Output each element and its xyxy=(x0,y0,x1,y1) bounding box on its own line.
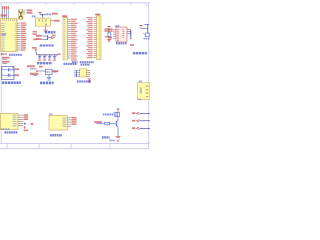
section title mcu minimal system xyxy=(2,81,21,84)
J2 net labels xyxy=(86,17,92,58)
bluetooth module U3 xyxy=(80,69,87,77)
U1 designator text xyxy=(1,33,6,35)
title block dividers xyxy=(7,144,110,149)
buzzer label xyxy=(103,114,114,116)
stray net labels right of U1 pins xyxy=(33,31,37,33)
J4 internal text xyxy=(140,88,142,94)
USB1 right pins xyxy=(127,29,131,34)
shield strip xyxy=(130,30,132,37)
net label above J1 xyxy=(62,15,67,17)
net labels under U1 xyxy=(1,53,4,55)
ground bluetooth xyxy=(88,78,91,82)
J1 pin numbers xyxy=(64,19,65,59)
net label C1 xyxy=(15,68,19,70)
title block top line xyxy=(0,143,150,145)
J2 pins xyxy=(94,18,97,58)
section title swd xyxy=(4,131,17,133)
J4 pin numbers xyxy=(146,86,149,98)
U2 right pin xyxy=(50,20,53,22)
wire net port 2 xyxy=(139,120,150,122)
resistor R base xyxy=(105,122,110,124)
section title filter caps xyxy=(37,62,52,64)
net label row above U1 edge xyxy=(1,15,7,17)
blue text under USB1 xyxy=(116,42,127,44)
net label SWD xyxy=(30,73,39,75)
ref text J4 xyxy=(139,81,142,83)
usb ref text xyxy=(115,25,119,27)
wire emitter xyxy=(117,127,119,136)
USB1 left pin numbers xyxy=(117,29,119,41)
wire join xyxy=(47,36,49,39)
P1 pin names xyxy=(13,115,17,127)
transistor Q1 xyxy=(115,121,117,126)
U2 bottom pin xyxy=(45,26,47,30)
resistor R row 1 xyxy=(2,57,10,59)
capacitor C6 xyxy=(54,55,56,57)
header J2 xyxy=(97,16,102,60)
J2 pin numbers xyxy=(99,17,100,58)
net label 3V3 xyxy=(54,20,60,22)
resistor R cc xyxy=(108,33,111,37)
fuse F1 xyxy=(46,69,53,74)
regulator ref text xyxy=(47,13,51,15)
wire RXD xyxy=(42,35,48,37)
sheet border bottom xyxy=(0,148,150,150)
title block text xyxy=(109,140,115,142)
power flag top right xyxy=(140,25,143,26)
sheet border right xyxy=(148,3,150,149)
net label 5V xyxy=(52,13,58,15)
sheet corner mark top-right xyxy=(146,3,149,6)
ground buzzer xyxy=(116,135,121,137)
net label rail end xyxy=(58,54,61,56)
net label under flag xyxy=(24,130,29,132)
P1 pins xyxy=(18,115,23,126)
U1 right pins xyxy=(17,23,20,50)
section title one-key download xyxy=(40,44,54,46)
net label RXD xyxy=(36,35,42,37)
power flag typec xyxy=(108,26,111,27)
section title buzzer xyxy=(102,136,110,138)
crystal Y1 xyxy=(19,10,23,20)
section title serial download xyxy=(40,82,54,85)
net label C2 xyxy=(15,74,19,76)
sheet border top ticks xyxy=(18,3,131,5)
blue text under bluetooth xyxy=(77,80,91,82)
USB1 left pins xyxy=(113,29,116,39)
USB1 right pin numbers xyxy=(122,29,124,38)
wires U1 top pins xyxy=(3,9,9,18)
net port 3 xyxy=(132,127,136,129)
net port 1 xyxy=(132,112,136,114)
section title oled xyxy=(50,134,62,137)
power flag caps row xyxy=(35,49,38,50)
header J1 xyxy=(63,18,68,61)
blue text row above bluetooth xyxy=(72,61,78,63)
wire TXD xyxy=(42,38,48,40)
net label 5V in xyxy=(39,66,43,68)
P2 pin names xyxy=(62,117,66,127)
P1 bottom text xyxy=(1,128,9,130)
transistor Q2 xyxy=(145,33,149,37)
capacitor C1 xyxy=(8,68,10,71)
section title regulator xyxy=(45,31,56,34)
bluetooth left pins xyxy=(74,70,80,77)
power flag buzzer xyxy=(117,109,120,110)
wire loop crystal xyxy=(2,66,14,79)
blue text under J1 xyxy=(64,63,77,65)
mcu U1 xyxy=(1,19,18,52)
wire down xyxy=(48,75,50,78)
power rail wire xyxy=(37,54,59,56)
wire net port 1 xyxy=(139,112,150,114)
junction dots xyxy=(47,35,48,36)
net labels right of U1 xyxy=(21,22,27,50)
P2 pins xyxy=(67,118,71,126)
net label right xyxy=(130,44,134,46)
junction diamond xyxy=(24,122,26,124)
net labels left of USB1 xyxy=(104,28,112,30)
wire vertical xyxy=(147,25,149,34)
U1 top pin numbers xyxy=(2,19,16,21)
capacitor C2 xyxy=(8,74,10,77)
wire cc xyxy=(108,28,110,33)
junction dot xyxy=(42,14,44,16)
net label NRST xyxy=(27,65,35,67)
ref text P2 xyxy=(49,114,52,116)
crystal pin strip xyxy=(24,9,25,14)
pin dot left xyxy=(36,70,38,72)
header P2 oled xyxy=(49,116,67,131)
header P1 swd xyxy=(0,114,18,130)
junction node 2 xyxy=(13,75,14,76)
section title type-c power xyxy=(133,52,147,54)
wire net port 3 xyxy=(139,127,150,129)
net port 2 xyxy=(132,120,136,122)
net label above J2 xyxy=(95,14,100,16)
header J4 xyxy=(138,82,150,99)
buzzer LS1 xyxy=(115,112,120,116)
usb connector USB1 xyxy=(116,27,127,42)
sheet border left xyxy=(0,3,2,144)
U1 right pin numbers xyxy=(15,23,17,51)
wire collector xyxy=(117,117,119,121)
blue text under J2 xyxy=(81,64,91,66)
capacitor C5 xyxy=(49,55,51,57)
net labels P1 xyxy=(24,114,29,116)
net labels right of crystal xyxy=(27,9,33,11)
bluetooth right pins xyxy=(87,70,90,77)
antenna line xyxy=(76,70,78,77)
J4 bottom mark xyxy=(138,99,141,100)
switch S1 xyxy=(47,77,52,79)
U1 left pin names xyxy=(1,23,4,51)
J1 pins xyxy=(68,19,71,58)
net labels P2 xyxy=(71,117,76,125)
resistor R row 2 xyxy=(2,61,10,63)
sheet border top xyxy=(0,2,150,4)
stray label xyxy=(31,123,34,125)
wire SWD xyxy=(34,74,38,76)
pin dot right xyxy=(57,70,59,72)
ground regulator xyxy=(44,29,48,31)
regulator U2 xyxy=(35,18,50,26)
capacitor C3 xyxy=(39,55,41,57)
base wire xyxy=(97,122,117,124)
blue text under U1 xyxy=(9,54,22,56)
netport arrow xyxy=(52,37,55,39)
J1 net labels xyxy=(71,19,78,61)
capacitor C4 xyxy=(44,55,46,57)
net labels above U1 xyxy=(2,6,9,9)
blue text under Q2 xyxy=(144,38,150,40)
wire regulator top xyxy=(40,14,47,16)
ground typec xyxy=(107,39,111,41)
power flag VCC regulator xyxy=(39,12,42,13)
net label right xyxy=(53,70,57,72)
top bar xyxy=(144,24,149,26)
net label TXD xyxy=(36,38,42,40)
blue text right of crystal xyxy=(32,16,36,18)
ground flag P1 xyxy=(24,126,26,128)
net label cc xyxy=(108,37,112,38)
U2 pin numbers xyxy=(39,19,40,21)
crystal Y1 internal xyxy=(19,10,23,19)
plus mark xyxy=(12,67,14,68)
wire NRST xyxy=(30,68,37,70)
wire to switch xyxy=(141,28,148,30)
wire 5v line xyxy=(37,70,59,72)
junction node 1 xyxy=(13,69,14,70)
net label BEEP xyxy=(94,121,102,123)
